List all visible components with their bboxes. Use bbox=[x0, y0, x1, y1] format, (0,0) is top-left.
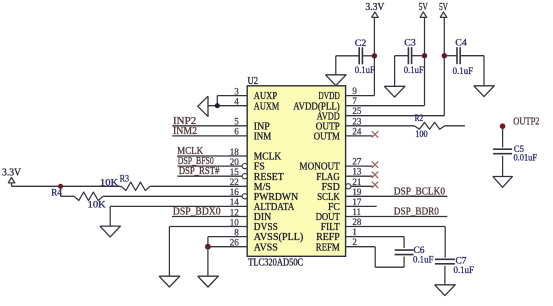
svg-text:15: 15 bbox=[230, 167, 240, 177]
svg-text:100: 100 bbox=[415, 129, 428, 139]
svg-text:10K: 10K bbox=[88, 199, 107, 209]
svg-text:12: 12 bbox=[230, 207, 239, 217]
svg-text:R3: R3 bbox=[120, 173, 130, 183]
svg-text:13: 13 bbox=[352, 167, 362, 177]
svg-text:DSP_BDR0: DSP_BDR0 bbox=[394, 207, 439, 218]
svg-text:5V: 5V bbox=[439, 2, 449, 13]
svg-text:0.1uF: 0.1uF bbox=[355, 66, 375, 76]
svg-text:2: 2 bbox=[352, 237, 357, 247]
svg-text:0.01uF: 0.01uF bbox=[514, 153, 538, 163]
svg-text:AUXM: AUXM bbox=[254, 101, 280, 112]
svg-text:26: 26 bbox=[230, 238, 240, 248]
svg-text:DSP_RST#: DSP_RST# bbox=[179, 166, 220, 177]
svg-text:R4: R4 bbox=[51, 188, 62, 198]
svg-text:10K: 10K bbox=[100, 178, 119, 188]
svg-text:4: 4 bbox=[234, 97, 239, 107]
svg-text:24: 24 bbox=[352, 126, 362, 136]
svg-text:10: 10 bbox=[230, 217, 240, 227]
svg-text:14: 14 bbox=[230, 197, 240, 207]
svg-text:25: 25 bbox=[352, 106, 362, 116]
svg-text:R2: R2 bbox=[415, 113, 424, 123]
svg-text:17: 17 bbox=[352, 197, 362, 207]
svg-text:0.1uF: 0.1uF bbox=[404, 66, 424, 76]
svg-text:3.3V: 3.3V bbox=[2, 168, 22, 179]
svg-text:AVSS: AVSS bbox=[254, 242, 278, 253]
svg-text:0.1uF: 0.1uF bbox=[454, 266, 475, 276]
svg-text:21: 21 bbox=[352, 177, 361, 187]
svg-text:OUTP2: OUTP2 bbox=[513, 116, 539, 127]
svg-text:20: 20 bbox=[230, 157, 240, 167]
svg-text:23: 23 bbox=[352, 116, 362, 126]
svg-text:5: 5 bbox=[234, 117, 239, 127]
svg-text:1: 1 bbox=[352, 227, 357, 237]
svg-text:DSP_BDX0: DSP_BDX0 bbox=[173, 207, 221, 218]
svg-text:C4: C4 bbox=[455, 39, 467, 49]
svg-text:0.1uF: 0.1uF bbox=[413, 256, 434, 266]
svg-text:27: 27 bbox=[352, 157, 362, 167]
svg-text:9: 9 bbox=[352, 86, 357, 96]
svg-text:0.1uF: 0.1uF bbox=[453, 67, 474, 77]
svg-text:REFM: REFM bbox=[316, 242, 340, 253]
svg-text:5V: 5V bbox=[419, 2, 429, 13]
svg-text:11: 11 bbox=[352, 207, 361, 217]
svg-text:C7: C7 bbox=[456, 257, 467, 267]
svg-text:8: 8 bbox=[234, 227, 239, 237]
svg-text:3.3V: 3.3V bbox=[365, 2, 385, 13]
svg-text:INM: INM bbox=[254, 132, 272, 143]
svg-text:INM2: INM2 bbox=[173, 126, 197, 137]
svg-text:7: 7 bbox=[352, 96, 357, 106]
svg-text:3: 3 bbox=[234, 86, 239, 96]
svg-text:C2: C2 bbox=[355, 39, 367, 49]
svg-text:19: 19 bbox=[352, 187, 362, 197]
svg-text:22: 22 bbox=[230, 177, 239, 187]
svg-text:28: 28 bbox=[352, 217, 362, 227]
svg-text:DSP_BCLK0: DSP_BCLK0 bbox=[394, 187, 445, 198]
svg-text:18: 18 bbox=[230, 147, 240, 157]
svg-text:OUTM: OUTM bbox=[314, 132, 340, 143]
svg-text:U2: U2 bbox=[248, 76, 259, 87]
svg-text:C3: C3 bbox=[404, 39, 416, 49]
svg-text:6: 6 bbox=[234, 127, 239, 137]
svg-text:C6: C6 bbox=[414, 246, 425, 256]
svg-text:TLC320AD50C: TLC320AD50C bbox=[248, 258, 303, 269]
svg-text:16: 16 bbox=[230, 187, 240, 197]
